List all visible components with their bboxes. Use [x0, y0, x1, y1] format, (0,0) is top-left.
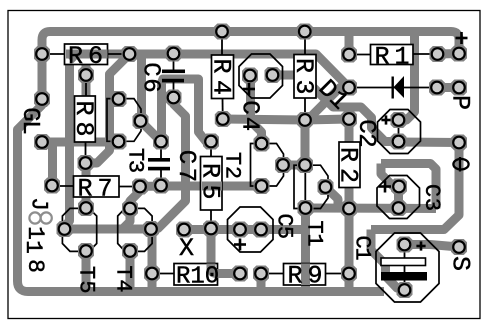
svg-text:C: C: [419, 184, 444, 197]
svg-text:R10: R10: [176, 264, 219, 291]
svg-text:2: 2: [220, 166, 245, 179]
svg-text:1: 1: [350, 247, 375, 260]
svg-text:J: J: [26, 197, 52, 211]
svg-text:R: R: [289, 58, 318, 73]
svg-text:R: R: [207, 58, 236, 73]
svg-text:3: 3: [123, 160, 148, 173]
svg-text:1: 1: [302, 233, 327, 246]
svg-text:R9: R9: [288, 262, 328, 291]
svg-text:C: C: [352, 119, 379, 133]
svg-text:C: C: [136, 62, 163, 76]
svg-text:R: R: [69, 100, 98, 115]
svg-text:T: T: [74, 266, 99, 279]
svg-text:T: T: [111, 265, 136, 278]
svg-text:6: 6: [136, 78, 163, 92]
svg-text:4: 4: [235, 117, 262, 131]
svg-text:R7: R7: [78, 175, 118, 204]
svg-text:3: 3: [419, 198, 444, 211]
svg-text:R: R: [334, 147, 363, 162]
svg-text:C: C: [172, 150, 199, 164]
svg-text:1: 1: [22, 226, 48, 240]
svg-text:L: L: [16, 120, 43, 134]
svg-text:7: 7: [172, 168, 199, 182]
svg-text:4: 4: [111, 279, 136, 292]
svg-text:8: 8: [22, 259, 48, 273]
svg-text:2: 2: [334, 168, 363, 183]
svg-text:2: 2: [352, 133, 379, 147]
svg-text:X: X: [179, 234, 194, 263]
svg-text:P: P: [446, 95, 475, 110]
svg-text:S: S: [446, 256, 475, 271]
svg-text:T: T: [220, 152, 245, 165]
svg-text:T: T: [302, 220, 327, 233]
svg-text:C: C: [235, 100, 262, 114]
svg-text:5: 5: [195, 184, 224, 199]
svg-text:5: 5: [74, 280, 99, 293]
svg-text:4: 4: [207, 80, 236, 95]
svg-text:R6: R6: [68, 42, 108, 71]
svg-text:R1: R1: [375, 43, 415, 72]
svg-text:5: 5: [272, 226, 297, 239]
svg-text:1: 1: [20, 240, 46, 254]
svg-text:8: 8: [69, 121, 98, 136]
svg-text:C: C: [272, 213, 297, 226]
